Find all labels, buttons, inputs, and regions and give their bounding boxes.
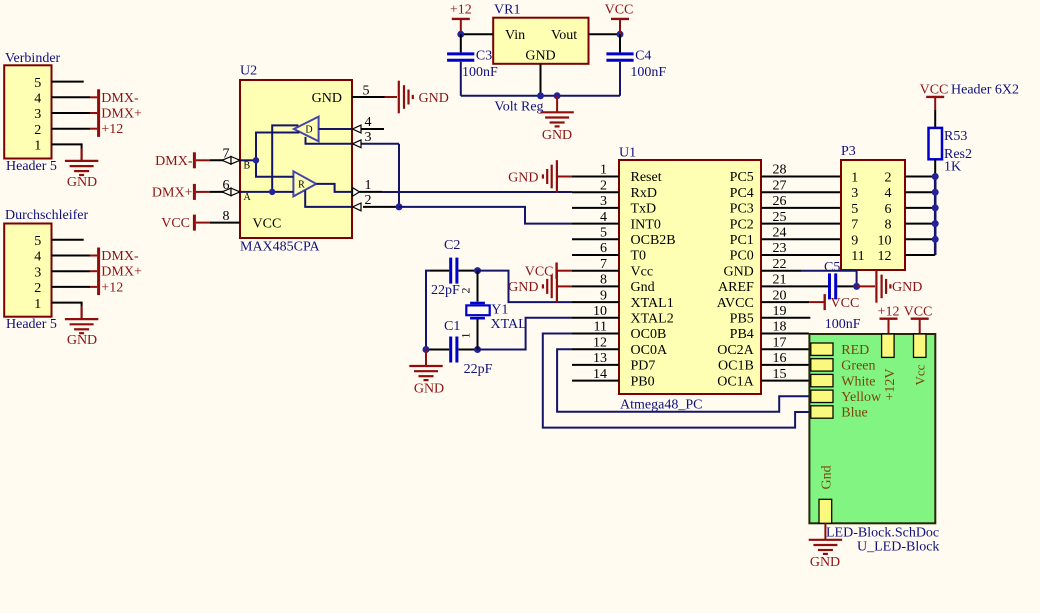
pin 25 PC2 <box>761 223 841 225</box>
connector Durchschleifer body <box>4 224 51 317</box>
sheet entry Gnd (bottom) <box>819 499 832 523</box>
svg-text:+12: +12 <box>878 304 900 319</box>
svg-text:100nF: 100nF <box>825 317 861 332</box>
svg-text:22pF: 22pF <box>431 283 460 298</box>
ground below rail <box>540 96 573 143</box>
svg-text:3: 3 <box>851 186 858 201</box>
svg-text:VCC: VCC <box>525 264 554 279</box>
svg-text:PB5: PB5 <box>730 312 754 327</box>
svg-text:PC4: PC4 <box>730 186 754 201</box>
svg-text:GND: GND <box>312 91 342 106</box>
svg-text:U1: U1 <box>619 146 636 161</box>
pin 1 Reset <box>572 176 619 178</box>
svg-text:GND: GND <box>508 170 538 185</box>
svg-text:10: 10 <box>878 233 892 248</box>
wire Vout pin <box>589 33 621 35</box>
wire VR1 GND pin <box>540 64 542 96</box>
svg-text:8: 8 <box>600 273 607 288</box>
svg-text:MAX485CPA: MAX485CPA <box>240 240 321 255</box>
ground below LED block <box>809 540 842 554</box>
pin 15 OC1A <box>761 380 809 382</box>
svg-text:DMX-: DMX- <box>101 91 139 106</box>
svg-text:OCB2B: OCB2B <box>631 233 676 248</box>
power +12 <box>450 3 472 35</box>
node C5/GND/pin22 <box>853 283 860 290</box>
pin 3 <box>352 143 399 145</box>
svg-text:B: B <box>244 161 251 172</box>
wire pin5 to ground <box>385 96 398 98</box>
IC U1 body <box>619 160 761 394</box>
svg-text:+12: +12 <box>101 280 123 295</box>
svg-text:4: 4 <box>34 250 41 265</box>
wire R output to pin 1 <box>316 184 352 192</box>
sheet entry Green <box>811 359 833 371</box>
node C1/GND <box>423 346 430 353</box>
wire C2 left leg down to C1 <box>426 271 430 350</box>
svg-text:VCC: VCC <box>920 83 949 98</box>
pin 2 (/RE) <box>353 203 362 211</box>
svg-text:VR1: VR1 <box>494 3 520 18</box>
ground <box>65 161 98 175</box>
pin 23 PC0 <box>761 254 841 256</box>
svg-text:Vout: Vout <box>551 28 577 43</box>
power VCC at pin 7 <box>525 263 572 280</box>
wire C2/Y1 to XTAL1 <box>478 271 573 303</box>
svg-text:17: 17 <box>773 335 787 350</box>
svg-text:14: 14 <box>593 367 607 382</box>
sheet entry Yellow <box>811 390 833 402</box>
svg-text:GND: GND <box>810 555 840 570</box>
node C2/Y1 top <box>474 267 481 274</box>
pin 3 <box>52 270 91 272</box>
svg-text:P3: P3 <box>841 144 856 159</box>
wire ground rail <box>461 95 620 97</box>
node pull-up row5 <box>932 236 939 243</box>
svg-text:21: 21 <box>773 273 787 288</box>
pin 3 <box>52 112 91 114</box>
pin 13 PD7 <box>572 364 619 366</box>
svg-text:2: 2 <box>365 193 372 208</box>
svg-text:25: 25 <box>773 210 787 225</box>
sheet entry +12V (top) <box>882 334 895 357</box>
wire GND pin22 down to C5 net <box>801 271 857 287</box>
pin 3 TxD <box>572 207 619 209</box>
svg-text:OC0A: OC0A <box>631 343 668 358</box>
svg-text:VCC: VCC <box>904 304 933 319</box>
svg-text:LED-Block.SchDoc: LED-Block.SchDoc <box>826 526 939 541</box>
SECTION: header Durchschleifer <box>4 208 142 348</box>
svg-text:OC1B: OC1B <box>718 359 754 374</box>
SECTION: P3 header + R53 <box>841 83 1019 271</box>
pin 4 <box>352 128 384 130</box>
svg-text:RxD: RxD <box>631 186 657 201</box>
svg-text:12: 12 <box>593 335 607 350</box>
svg-text:27: 27 <box>773 178 787 193</box>
power VCC <box>605 3 634 35</box>
pin 11 OC0B <box>572 333 619 335</box>
node pull-up row4 <box>932 220 939 227</box>
svg-text:1: 1 <box>34 139 41 154</box>
SECTION: U2 MAX485 <box>152 64 572 255</box>
svg-text:OC2A: OC2A <box>717 343 754 358</box>
pin 5 <box>52 81 84 83</box>
pin 2 <box>52 286 91 288</box>
svg-text:9: 9 <box>851 233 858 248</box>
SECTION: crystal circuit <box>409 238 572 397</box>
wire internal A net <box>240 125 298 191</box>
buffer D (driver) <box>294 117 319 142</box>
wire pin1 to ground <box>81 302 83 307</box>
svg-text:26: 26 <box>773 194 787 209</box>
wire to ground symbol <box>857 285 875 287</box>
svg-text:T0: T0 <box>631 249 647 264</box>
svg-text:VCC: VCC <box>253 216 282 231</box>
SECTION: header Verbinder <box>4 51 142 190</box>
svg-text:A: A <box>244 192 252 203</box>
svg-text:Header 5: Header 5 <box>6 317 57 332</box>
svg-text:TxD: TxD <box>631 202 657 217</box>
sheet entry RED <box>811 343 833 355</box>
svg-text:PC2: PC2 <box>730 217 754 232</box>
svg-text:R: R <box>298 179 305 190</box>
svg-text:DMX-: DMX- <box>155 154 193 169</box>
pin 5 (GND) <box>352 96 385 98</box>
node rail/VR1 GND <box>537 92 544 99</box>
svg-text:1: 1 <box>600 163 607 178</box>
svg-text:22: 22 <box>773 257 787 272</box>
wire RO to U1 RxD <box>382 191 572 193</box>
pin 24 PC1 <box>761 238 841 240</box>
capacitor C3 <box>447 34 474 96</box>
svg-text:15: 15 <box>773 367 787 382</box>
svg-text:2: 2 <box>600 178 607 193</box>
svg-text:GND: GND <box>525 49 555 64</box>
pin 1 <box>52 143 82 145</box>
sheet entry White <box>811 374 833 386</box>
pin 5 <box>52 239 84 241</box>
sheet symbol U_LED-Block body <box>809 334 935 523</box>
SECTION: U1 Atmega48 <box>508 146 859 428</box>
svg-text:6: 6 <box>600 241 607 256</box>
wire Vin pin <box>461 33 493 35</box>
svg-text:22pF: 22pF <box>464 362 493 377</box>
svg-text:6: 6 <box>885 202 892 217</box>
ground at pin 5 (rotated) <box>399 81 413 114</box>
capacitor C1 <box>426 337 478 363</box>
node pull-up row2 <box>932 189 939 196</box>
svg-text:Reset: Reset <box>631 170 662 185</box>
svg-text:Durchschleifer: Durchschleifer <box>5 208 89 223</box>
svg-text:1: 1 <box>365 178 372 193</box>
svg-text:1: 1 <box>851 171 858 186</box>
svg-text:GND: GND <box>892 280 922 295</box>
svg-text:4: 4 <box>600 210 607 225</box>
svg-text:2: 2 <box>459 288 473 294</box>
svg-text:OC1A: OC1A <box>717 374 754 389</box>
pin 1 (RO) <box>353 188 360 197</box>
pin 12 OC0A <box>572 348 619 350</box>
svg-text:PC3: PC3 <box>730 202 754 217</box>
svg-text:2: 2 <box>34 123 41 138</box>
connector Verbinder body <box>4 65 51 158</box>
svg-text:5: 5 <box>363 84 370 99</box>
svg-text:U2: U2 <box>240 64 257 79</box>
node pull-up row1 <box>932 173 939 180</box>
svg-text:VCC: VCC <box>161 216 190 231</box>
pin 18 PB4 <box>761 333 809 335</box>
svg-text:DMX+: DMX+ <box>101 107 142 122</box>
pin 19 PB5 <box>761 317 810 319</box>
wire pin1 to ground <box>81 143 83 148</box>
wire pin3 net down to pin2 net <box>398 144 400 207</box>
wire D input <box>319 128 352 130</box>
svg-text:4: 4 <box>885 186 892 201</box>
svg-text:5: 5 <box>600 226 607 241</box>
svg-text:GND: GND <box>419 91 449 106</box>
port bar for DMX-/DMX+/+12 <box>97 89 100 137</box>
svg-text:2: 2 <box>34 281 41 296</box>
svg-text:8: 8 <box>885 218 892 233</box>
svg-text:Verbinder: Verbinder <box>5 51 61 66</box>
wire OC0B to LED Blue <box>543 334 810 428</box>
pin 2 RxD <box>572 191 619 193</box>
svg-text:+12V: +12V <box>883 368 898 400</box>
svg-text:7: 7 <box>600 257 607 272</box>
pin 27 PC4 <box>761 191 841 193</box>
wire C1/Y1 to XTAL2 <box>478 318 573 350</box>
pin 7 (B) <box>210 159 240 161</box>
svg-text:+12: +12 <box>101 122 123 137</box>
svg-text:13: 13 <box>593 351 607 366</box>
svg-text:12: 12 <box>878 249 892 264</box>
svg-text:11: 11 <box>851 249 864 264</box>
svg-text:28: 28 <box>773 163 787 178</box>
pin 21 AREF <box>761 285 827 287</box>
svg-text:19: 19 <box>773 304 787 319</box>
wire internal B net <box>240 133 299 177</box>
svg-text:PB0: PB0 <box>631 374 655 389</box>
svg-text:GND: GND <box>414 382 444 397</box>
svg-text:1: 1 <box>34 297 41 312</box>
svg-text:4: 4 <box>365 115 372 130</box>
svg-text:Atmega48_PC: Atmega48_PC <box>620 398 702 413</box>
connector P3 body <box>841 160 905 270</box>
ground at pin 8 (Gnd) <box>508 270 572 303</box>
svg-text:PC5: PC5 <box>730 170 754 185</box>
power VCC at pin 20 <box>809 294 859 311</box>
svg-text:24: 24 <box>773 226 787 241</box>
wire pull-up column <box>934 177 937 256</box>
svg-text:RED: RED <box>841 343 869 358</box>
wire R53 bottom to bus column <box>934 159 936 176</box>
svg-text:7: 7 <box>851 218 858 233</box>
svg-text:Yellow: Yellow <box>841 390 882 405</box>
svg-text:AREF: AREF <box>718 280 754 295</box>
svg-text:3: 3 <box>365 130 372 145</box>
power VCC above LED block <box>904 304 933 334</box>
svg-text:XTAL1: XTAL1 <box>631 296 674 311</box>
SECTION: voltage regulator VR1 <box>447 3 666 143</box>
svg-text:GND: GND <box>723 264 753 279</box>
svg-text:11: 11 <box>594 320 607 335</box>
svg-text:DMX+: DMX+ <box>152 185 193 200</box>
svg-text:18: 18 <box>773 320 787 335</box>
node rail/GND symbol <box>554 92 561 99</box>
pin 4 <box>52 255 91 257</box>
pin 9 XTAL1 <box>572 301 619 303</box>
svg-text:PB4: PB4 <box>730 327 754 342</box>
svg-text:2: 2 <box>885 171 892 186</box>
svg-text:GND: GND <box>67 333 97 348</box>
ground at pin 1 (Reset) <box>508 160 572 193</box>
svg-text:XTAL2: XTAL2 <box>631 312 674 327</box>
svg-text:4: 4 <box>34 92 41 107</box>
pin 4 INT0 <box>572 223 619 225</box>
pin 16 OC1B <box>761 364 809 366</box>
sheet entry Vcc (top) <box>914 334 927 357</box>
svg-text:C2: C2 <box>444 238 460 253</box>
wire OC0A to LED Yellow <box>557 349 809 412</box>
svg-text:Header 6X2: Header 6X2 <box>951 83 1019 98</box>
pin 6 T0 <box>572 254 619 256</box>
pin 10 XTAL2 <box>572 317 619 319</box>
buffer R (receiver) <box>293 171 316 196</box>
svg-text:Blue: Blue <box>841 406 867 421</box>
SECTION: C5 + LED block <box>801 260 939 570</box>
svg-text:+12: +12 <box>450 3 472 18</box>
svg-text:Vcc: Vcc <box>913 364 928 385</box>
svg-text:INT0: INT0 <box>631 217 661 232</box>
pin 14 PB0 <box>572 380 619 382</box>
IC U2 body <box>240 80 352 238</box>
svg-text:U_LED-Block: U_LED-Block <box>857 540 939 555</box>
power +12 above LED block <box>878 304 900 334</box>
svg-text:C1: C1 <box>444 319 460 334</box>
node C1/Y1 bottom <box>474 346 481 353</box>
sheet entry Blue <box>811 406 833 418</box>
wire VCC to R53 <box>934 110 936 128</box>
svg-text:Gnd: Gnd <box>820 465 835 489</box>
svg-text:100nF: 100nF <box>462 65 498 80</box>
pin 2 <box>52 128 91 130</box>
svg-text:9: 9 <box>600 288 607 303</box>
svg-text:DMX-: DMX- <box>101 249 139 264</box>
svg-text:Header 5: Header 5 <box>6 159 57 174</box>
wire R enable to pin 2 <box>305 191 352 207</box>
port bar for DMX-/DMX+/+12 <box>97 248 100 296</box>
svg-text:Y1: Y1 <box>491 302 508 317</box>
svg-text:DMX+: DMX+ <box>101 265 142 280</box>
pin 8 Gnd <box>572 285 619 287</box>
svg-text:Vcc: Vcc <box>631 264 654 279</box>
svg-text:C5: C5 <box>824 260 840 275</box>
ground <box>65 319 98 333</box>
svg-text:10: 10 <box>593 304 607 319</box>
svg-text:GND: GND <box>67 175 97 190</box>
svg-text:Gnd: Gnd <box>631 280 655 295</box>
ground below C1 <box>409 350 444 397</box>
svg-text:GND: GND <box>542 128 572 143</box>
pin 22 GND <box>761 270 801 272</box>
svg-text:C4: C4 <box>635 49 651 64</box>
svg-text:C3: C3 <box>476 49 492 64</box>
svg-text:D: D <box>305 125 312 136</box>
node pull-up row3 <box>932 204 939 211</box>
svg-text:1K: 1K <box>944 160 961 175</box>
capacitor C4 <box>606 34 633 96</box>
power VCC above R53 <box>920 83 949 111</box>
pin 7 Vcc <box>572 270 619 272</box>
node B <box>253 157 259 163</box>
svg-text:PC0: PC0 <box>730 249 754 264</box>
svg-text:PD7: PD7 <box>631 359 656 374</box>
ground at C5 (rotated) <box>876 270 890 303</box>
svg-text:GND: GND <box>508 280 538 295</box>
node +12/Vin/C3 <box>457 31 464 38</box>
pin 8 (VCC) <box>210 222 240 224</box>
pin 28 PC5 <box>761 176 841 178</box>
wire RE/DE net to U1 INT0 <box>399 207 572 224</box>
node pin2/pin3 tie <box>396 203 403 210</box>
resistor R53 <box>929 128 943 159</box>
pin 6 (A) <box>210 191 240 193</box>
pin 1 <box>52 302 82 304</box>
svg-text:1: 1 <box>459 333 473 339</box>
svg-text:White: White <box>841 374 875 389</box>
crystal Y1 <box>466 271 489 350</box>
svg-text:PC1: PC1 <box>730 233 754 248</box>
pin 17 OC2A <box>761 348 809 350</box>
wire D enable to pin 3 <box>306 137 352 144</box>
svg-text:20: 20 <box>773 288 787 303</box>
wire Gnd port to ground <box>824 523 826 539</box>
svg-text:Vin: Vin <box>505 28 525 43</box>
capacitor C2 <box>430 258 478 284</box>
svg-text:Green: Green <box>841 359 875 374</box>
svg-text:5: 5 <box>851 202 858 217</box>
svg-text:8: 8 <box>223 209 230 224</box>
svg-text:23: 23 <box>773 241 787 256</box>
pin 4 <box>52 96 91 98</box>
svg-text:3: 3 <box>34 265 41 280</box>
node Vout/VCC/C4 <box>617 31 624 38</box>
svg-text:OC0B: OC0B <box>631 327 667 342</box>
svg-text:Volt Reg: Volt Reg <box>494 99 543 114</box>
svg-text:3: 3 <box>34 107 41 122</box>
regulator VR1 body <box>493 18 588 64</box>
node A <box>269 189 275 195</box>
svg-text:16: 16 <box>773 351 787 366</box>
svg-text:5: 5 <box>34 76 41 91</box>
svg-text:XTAL: XTAL <box>491 317 527 332</box>
svg-text:5: 5 <box>34 234 41 249</box>
svg-text:R53: R53 <box>944 129 967 144</box>
svg-text:VCC: VCC <box>605 3 634 18</box>
svg-text:AVCC: AVCC <box>717 296 754 311</box>
capacitor C5 <box>827 273 857 299</box>
svg-text:3: 3 <box>600 194 607 209</box>
pin 20 AVCC <box>761 301 809 303</box>
pin 26 PC3 <box>761 207 841 209</box>
pin 5 OCB2B <box>572 238 619 240</box>
svg-text:100nF: 100nF <box>630 65 666 80</box>
